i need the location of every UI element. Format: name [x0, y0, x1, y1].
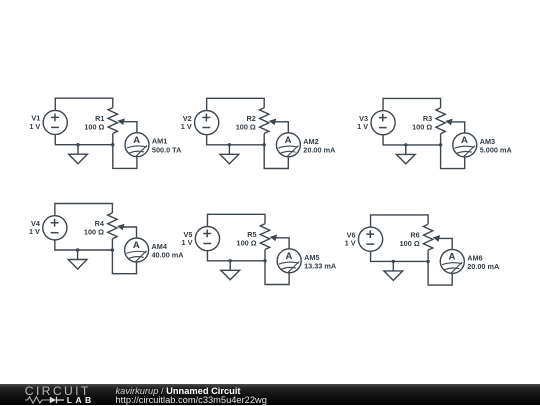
wiper arrow of R1	[117, 118, 125, 125]
wire: V3 top to R3 top	[383, 98, 441, 110]
svg-text:1 V: 1 V	[29, 122, 40, 131]
label: AM2 20.00 mA	[303, 137, 336, 155]
credit line: user / circuit name	[116, 387, 241, 396]
svg-text:100 Ω: 100 Ω	[412, 123, 432, 132]
wire: V2 top to R2 top	[207, 98, 265, 110]
wire: R6 bottom lead	[427, 250, 429, 261]
wire: R4 wiper to AM4 top	[123, 227, 137, 238]
label: AM1 500.0 TA	[152, 137, 182, 155]
ground symbol circuit 4	[68, 250, 87, 269]
label: R1 100 Ω	[84, 114, 104, 132]
wire: R1 bottom lead	[112, 133, 114, 144]
junction: ground node of circuit 6	[392, 260, 395, 263]
junction: ground node of circuit 3	[404, 143, 407, 146]
resistor R3 100 Ohm (rheostat)	[436, 108, 445, 134]
junction: ground node of circuit 2	[228, 143, 231, 146]
wire: V1 top to R1 top	[55, 98, 113, 110]
wiper arrow of R2	[269, 119, 277, 126]
voltage source V1	[43, 110, 67, 134]
label: V2 1 V	[181, 114, 192, 131]
resistor R2 100 Ohm (rheostat)	[260, 108, 269, 134]
svg-text:A: A	[449, 252, 456, 263]
wire: AM6 bottom loop to rail	[428, 261, 452, 285]
ammeter AM5	[277, 249, 301, 273]
resistor R4 100 Ohm (rheostat)	[108, 213, 117, 239]
wiper arrow of R4	[117, 224, 125, 231]
label: R2 100 Ω	[236, 114, 256, 132]
CircuitLab logo: resistor-diode squiggle	[23, 395, 69, 406]
svg-text:A: A	[133, 240, 140, 251]
ground symbol circuit 3	[396, 145, 415, 164]
svg-text:A: A	[133, 135, 140, 146]
resistor R5 100 Ohm (rheostat)	[260, 224, 269, 250]
voltage source V4	[43, 216, 67, 240]
label: AM6 20.00 mA	[467, 253, 500, 271]
wire: V4 top to R4 top	[55, 204, 113, 216]
svg-text:100 Ω: 100 Ω	[84, 122, 104, 131]
wire: R5 wiper to AM5 top	[275, 238, 289, 249]
wire: R2 wiper to AM2 top	[274, 122, 288, 133]
wire: V3 bottom rail to R3 bottom	[383, 135, 441, 145]
svg-text:1 V: 1 V	[345, 239, 356, 248]
wiper arrow of R3	[445, 119, 453, 126]
CircuitLab logo: CIRCUIT wordmark	[25, 385, 91, 397]
svg-text:40.00 mA: 40.00 mA	[152, 251, 185, 260]
junction: R4 bottom node	[111, 248, 114, 251]
wire: V5 bottom rail to R5 bottom	[207, 251, 265, 261]
voltage source V2	[195, 111, 219, 135]
wiper arrow of R6	[433, 235, 441, 242]
wire: R6 wiper to AM6 top	[438, 238, 452, 249]
label: AM3 5.000 mA	[480, 137, 513, 155]
label: AM4 40.00 mA	[152, 242, 185, 260]
label: V1 1 V	[29, 114, 40, 131]
CircuitLab logo: LAB wordmark	[67, 396, 95, 405]
wire: R3 wiper to AM3 top	[451, 122, 465, 133]
ground symbol circuit 6	[384, 261, 403, 280]
label: V6 1 V	[345, 230, 356, 247]
wire: R4 bottom lead	[111, 239, 113, 250]
ground symbol circuit 1	[69, 145, 88, 164]
resistor R6 100 Ohm (rheostat)	[423, 224, 432, 250]
wire: V6 top to R6 top	[371, 215, 429, 227]
svg-text:500.0 TA: 500.0 TA	[152, 145, 182, 154]
wire: R2 bottom lead	[263, 134, 265, 145]
svg-text:100 Ω: 100 Ω	[400, 239, 420, 248]
svg-text:100 Ω: 100 Ω	[236, 122, 256, 131]
wire: AM3 bottom loop to rail	[441, 145, 465, 169]
ammeter AM3	[453, 133, 477, 157]
wire: V5 top to R5 top	[207, 214, 265, 226]
svg-text:1 V: 1 V	[181, 122, 192, 131]
ammeter AM6	[440, 249, 464, 273]
svg-text:1 V: 1 V	[29, 227, 40, 236]
label: R6 100 Ω	[400, 231, 420, 249]
label: R5 100 Ω	[237, 230, 257, 248]
junction: R3 bottom node	[439, 143, 442, 146]
label: R3 100 Ω	[412, 114, 432, 132]
wire: AM5 bottom loop to rail	[265, 261, 289, 285]
svg-text:A: A	[285, 135, 292, 146]
wire: R3 bottom lead	[440, 134, 442, 145]
svg-text:100 Ω: 100 Ω	[84, 228, 104, 237]
resistor R1 100 Ohm (rheostat)	[108, 108, 117, 134]
junction: ground node of circuit 4	[76, 248, 79, 251]
ground symbol circuit 2	[220, 145, 239, 164]
wire: AM1 bottom loop to rail	[113, 145, 137, 169]
credit line: url	[116, 396, 267, 405]
footer bar	[0, 384, 540, 405]
label: R4 100 Ω	[84, 219, 105, 237]
wiper arrow of R5	[270, 235, 278, 242]
wire: R5 bottom lead	[264, 250, 266, 261]
wire: AM2 bottom loop to rail	[264, 145, 288, 169]
ammeter AM1	[125, 133, 149, 157]
junction: R2 bottom node	[263, 143, 266, 146]
junction: R1 bottom node	[111, 143, 114, 146]
label: V5 1 V	[182, 230, 193, 247]
wire: V6 bottom rail to R6 bottom	[371, 251, 429, 261]
svg-text:5.000 mA: 5.000 mA	[480, 146, 513, 155]
svg-text:20.00 mA: 20.00 mA	[303, 145, 336, 154]
wire: V2 bottom rail to R2 bottom	[207, 135, 265, 145]
label: AM5 13.33 mA	[304, 253, 337, 271]
svg-text:100 Ω: 100 Ω	[237, 239, 257, 248]
voltage source V3	[371, 111, 395, 135]
wire: V1 bottom rail to R1 bottom	[55, 135, 113, 145]
svg-text:13.33 mA: 13.33 mA	[304, 261, 337, 270]
junction: R5 bottom node	[263, 259, 266, 262]
wire: V4 bottom rail to R4 bottom	[55, 240, 113, 250]
wire: R1 wiper to AM1 top	[123, 122, 137, 133]
ground symbol circuit 5	[221, 261, 240, 280]
junction: ground node of circuit 5	[229, 259, 232, 262]
ammeter AM2	[276, 133, 300, 157]
svg-text:A: A	[285, 251, 292, 262]
wire: AM4 bottom loop to rail	[112, 250, 136, 274]
svg-text:1 V: 1 V	[357, 122, 368, 131]
voltage source V5	[195, 227, 219, 251]
junction: ground node of circuit 1	[76, 143, 79, 146]
svg-text:A: A	[461, 135, 468, 146]
junction: R6 bottom node	[426, 260, 429, 263]
label: V4 1 V	[29, 219, 41, 236]
label: V3 1 V	[357, 114, 368, 131]
svg-text:20.00 mA: 20.00 mA	[467, 262, 500, 271]
svg-text:1 V: 1 V	[182, 238, 193, 247]
ammeter AM4	[125, 238, 149, 262]
voltage source V6	[358, 227, 382, 251]
